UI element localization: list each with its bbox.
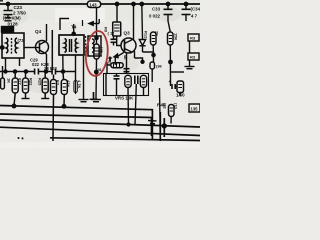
svg-text:135: 135 — [191, 107, 199, 112]
svg-text:+: + — [169, 79, 172, 84]
svg-text:124: 124 — [3, 27, 11, 32]
svg-text:4b: 4b — [123, 55, 127, 60]
svg-text:2K: 2K — [154, 31, 159, 36]
svg-text:(22: (22 — [163, 103, 168, 110]
svg-text:Q4: Q4 — [35, 29, 42, 34]
svg-text:1/50: 1/50 — [176, 93, 185, 98]
svg-text:143: 143 — [89, 2, 97, 7]
svg-text:R22: R22 — [29, 78, 34, 86]
svg-text:4 7K: 4 7K — [77, 80, 82, 89]
svg-text:0128: 0128 — [8, 21, 19, 26]
svg-text:022: 022 — [32, 62, 40, 67]
svg-text:28 502: 28 502 — [44, 66, 57, 71]
svg-text:Q3: Q3 — [124, 31, 131, 36]
svg-text:C33: C33 — [152, 7, 161, 12]
svg-text:(6M-X(M): (6M-X(M) — [3, 16, 21, 21]
svg-text:(C34: (C34 — [191, 7, 201, 12]
svg-text:(36: (36 — [156, 64, 163, 69]
svg-text:C23: C23 — [14, 5, 23, 10]
svg-text:027: 027 — [18, 78, 23, 85]
svg-text:1K: 1K — [7, 78, 12, 83]
svg-text:(10: (10 — [174, 103, 179, 110]
svg-text:( 12: ( 12 — [108, 31, 116, 36]
svg-text:R3: R3 — [190, 55, 196, 60]
svg-text:VRS 10K: VRS 10K — [115, 95, 134, 100]
svg-text:R12: R12 — [143, 31, 148, 39]
svg-text:0 022: 0 022 — [149, 14, 161, 19]
svg-text:15K: 15K — [174, 33, 179, 40]
svg-text:(73: (73 — [18, 38, 25, 43]
svg-text:K2: K2 — [56, 80, 61, 86]
svg-text:4 7: 4 7 — [191, 14, 198, 19]
svg-text:R3: R3 — [190, 36, 196, 41]
svg-text:R25: R25 — [38, 78, 43, 86]
svg-text:47K: 47K — [66, 80, 71, 87]
svg-text:R29: R29 — [108, 58, 113, 66]
svg-text:T4: T4 — [71, 25, 77, 30]
svg-text:28: 28 — [97, 68, 101, 72]
svg-text:4?5: 4?5 — [99, 46, 104, 54]
